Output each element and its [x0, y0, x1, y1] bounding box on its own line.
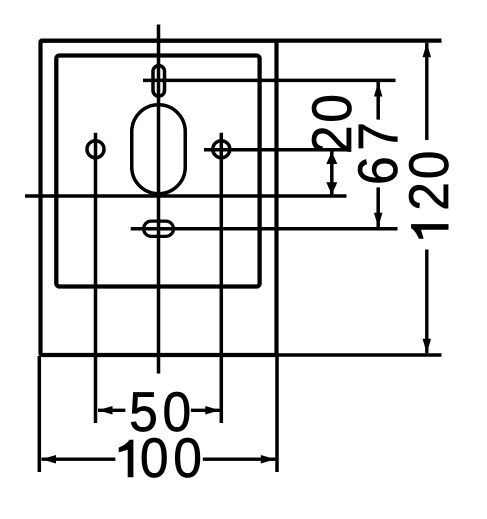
- svg-text:00: 00: [140, 427, 207, 489]
- svg-text:20: 20: [398, 148, 460, 211]
